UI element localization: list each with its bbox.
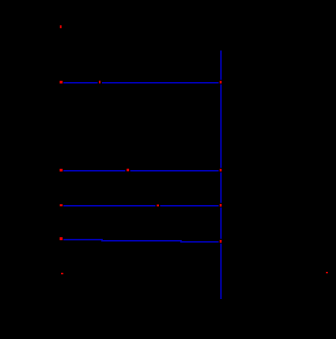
endpoint net4 left — [60, 237, 63, 240]
wire net4 (stepped horizontal) — [63, 240, 219, 242]
node B (isolated bottom-left) — [61, 273, 63, 275]
junction gap net2/bus — [219, 168, 223, 173]
node gap net1 mid — [98, 80, 102, 85]
node gap net2 mid — [125, 168, 130, 173]
endpoint net3 left — [60, 204, 63, 206]
wire net3 (third horizontal) — [63, 205, 219, 207]
node net3 mid — [157, 205, 159, 207]
node A (isolated top-left) — [60, 25, 62, 28]
node net1 mid — [99, 81, 101, 84]
wire net2 (second horizontal) — [63, 170, 219, 172]
node gap net3 mid — [155, 203, 160, 207]
node C (isolated bottom-right) — [326, 272, 328, 273]
junction node net3/bus — [220, 204, 222, 207]
junction node net2/bus — [220, 169, 222, 172]
wire net1 (top horizontal) — [63, 82, 219, 84]
node net2 mid — [127, 169, 130, 172]
junction gap net3/bus — [219, 203, 223, 208]
endpoint net1 left — [60, 81, 63, 84]
junction node net1/bus — [220, 81, 222, 84]
junction gap net4/bus — [219, 239, 223, 244]
junction node net4/bus — [220, 240, 222, 243]
junction gap net1/bus — [219, 80, 223, 85]
endpoint net2 left — [60, 169, 63, 172]
bus / vertical net wire — [220, 51, 222, 300]
